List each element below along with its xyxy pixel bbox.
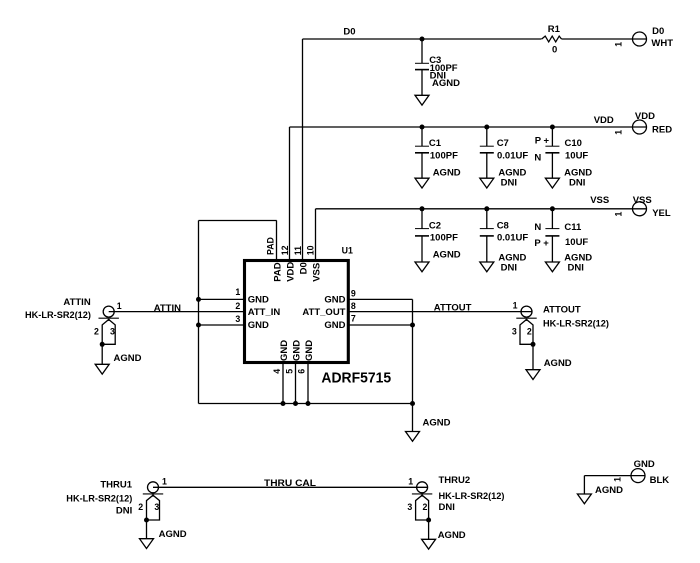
- svg-text:DNI: DNI: [116, 505, 132, 516]
- label C11: [564, 222, 582, 233]
- connector name ATTOUT: [543, 304, 581, 315]
- svg-text:AGND: AGND: [433, 167, 461, 178]
- svg-text:11: 11: [293, 246, 303, 255]
- pin number 3 of ATTIN: [110, 326, 115, 336]
- svg-text:2: 2: [527, 326, 532, 336]
- wire D0 net vertical to U1 pin 11: [302, 39, 304, 259]
- wire right GND bus vertical: [412, 299, 414, 431]
- net label ATTOUT: [434, 302, 472, 313]
- svg-text:100PF: 100PF: [430, 150, 458, 161]
- pin number 5 (rotated): [284, 369, 294, 374]
- svg-text:THRU CAL: THRU CAL: [264, 478, 316, 489]
- svg-text:0.01UF: 0.01UF: [497, 150, 528, 161]
- svg-text:VSS: VSS: [590, 195, 609, 206]
- svg-text:GND: GND: [324, 294, 345, 305]
- pin number 1 of ATTIN: [117, 301, 122, 311]
- pin name GND (pin 3): [248, 320, 269, 331]
- ground AGND below THRU1: [140, 539, 154, 549]
- wire bottom GND bus: [199, 403, 413, 405]
- ground AGND below C8: [480, 262, 494, 272]
- svg-text:AGND: AGND: [433, 249, 461, 260]
- wire THRU1 shield to ground: [146, 520, 148, 539]
- label DNI of THRU2: [439, 502, 455, 513]
- svg-text:3: 3: [407, 502, 412, 512]
- pin number 1 of J-VDD (rotated): [614, 130, 624, 135]
- svg-text:C10: C10: [565, 138, 582, 149]
- value 10UF of C10: [565, 150, 588, 161]
- svg-text:AGND: AGND: [159, 529, 187, 540]
- polarity mark P+ of C11: [534, 238, 549, 249]
- svg-text:RED: RED: [652, 124, 672, 135]
- svg-text:DNI: DNI: [569, 177, 585, 188]
- junction at ATTIN shield: [100, 342, 105, 347]
- connector ATTOUT circle (pin 1): [521, 306, 532, 317]
- connector part HK-LR-SR2(12) of ATTOUT: [543, 318, 609, 329]
- label C10: [565, 138, 582, 149]
- capacitor C3: [415, 39, 429, 95]
- svg-text:AGND: AGND: [438, 530, 466, 541]
- junction left bus at U1 pin 1: [196, 297, 201, 302]
- value 10UF of C11: [565, 237, 588, 248]
- polarity mark N of C10: [534, 152, 541, 163]
- polarity mark N of C11: [534, 222, 541, 233]
- junction VDD at C10: [550, 125, 555, 130]
- wire U1 pin 7 stub: [349, 324, 413, 326]
- label AGND at C11: [564, 253, 592, 264]
- pin number 1: [235, 287, 240, 297]
- svg-text:ATTOUT: ATTOUT: [543, 304, 581, 315]
- ground AGND below C2: [415, 262, 429, 272]
- svg-text:D0: D0: [343, 27, 355, 38]
- svg-text:1: 1: [613, 477, 623, 482]
- ground AGND below C7: [480, 178, 494, 188]
- pin name D0 (rotated): [298, 262, 309, 274]
- connector name D0: [652, 26, 664, 37]
- connector THRU2 shield: [412, 494, 432, 520]
- junction VDD at C7: [484, 125, 489, 130]
- junction at THRU2 shield: [426, 518, 431, 523]
- pin number 6 (rotated): [297, 369, 307, 374]
- pin name GND (pin 9): [324, 294, 345, 305]
- svg-text:YEL: YEL: [652, 208, 671, 219]
- net label VSS: [590, 195, 609, 206]
- label DNI of C8: [501, 262, 517, 273]
- net label D0: [343, 27, 355, 38]
- pin number 1 of J-D0 (rotated): [614, 42, 624, 47]
- connector name THRU1: [100, 479, 132, 490]
- pin number 1 of J-GND (rotated): [613, 477, 623, 482]
- svg-text:10UF: 10UF: [565, 237, 588, 248]
- svg-text:AGND: AGND: [544, 358, 572, 369]
- connector J-VDD pin 1 circle: [633, 120, 647, 134]
- wire U1 pin 4 stub: [282, 364, 284, 404]
- label AGND at ATTIN: [114, 353, 142, 364]
- junction VSS at C8: [484, 206, 489, 211]
- label AGND at ATTOUT: [544, 358, 572, 369]
- pin number 7: [351, 314, 356, 324]
- pin number 3 of ATTOUT: [512, 326, 517, 336]
- svg-text:VSS: VSS: [311, 263, 322, 282]
- svg-text:2: 2: [235, 301, 240, 311]
- value 100PF of C1: [430, 150, 458, 161]
- label AGND at C10: [564, 167, 592, 178]
- svg-text:THRU1: THRU1: [100, 479, 132, 490]
- wire THRU_CAL net: [153, 486, 428, 488]
- wire VDD net vertical from U1 pin 12: [289, 127, 291, 259]
- wire U1 pin 6 stub: [307, 364, 309, 404]
- junction VSS at C11: [550, 206, 555, 211]
- pin number 2 of THRU1: [138, 502, 143, 512]
- svg-text:D0: D0: [298, 262, 309, 274]
- pin name GND (pin 4, rotated): [279, 340, 290, 361]
- svg-text:ADRF5715: ADRF5715: [321, 369, 391, 386]
- label DNI of C10: [569, 177, 585, 188]
- wire U1 pin 3 stub: [199, 324, 245, 326]
- connector J-VSS pin 1 circle: [633, 202, 647, 216]
- pin number 9: [351, 288, 356, 298]
- junction left bus at U1 pin 3: [196, 323, 201, 328]
- ground AGND below C1: [415, 178, 429, 188]
- svg-text:ATTOUT: ATTOUT: [434, 302, 472, 313]
- value 0 of R1: [552, 44, 557, 55]
- wire U1 pin 1 stub: [199, 298, 245, 300]
- svg-text:ATTIN: ATTIN: [154, 303, 181, 314]
- label DNI of C11: [568, 262, 584, 273]
- capacitor C7: [480, 127, 494, 178]
- svg-text:3: 3: [512, 326, 517, 336]
- pin number 10 (rotated): [306, 245, 316, 255]
- label AGND at right bus: [423, 417, 451, 428]
- net label ATTIN: [154, 303, 181, 314]
- svg-text:HK-LR-SR2(12): HK-LR-SR2(12): [25, 310, 91, 321]
- pin name GND (pin 1): [248, 294, 269, 305]
- pin number 3 of THRU2: [407, 502, 412, 512]
- wire U1 pin 9 stub: [349, 298, 413, 300]
- svg-text:BLK: BLK: [650, 475, 670, 486]
- label AGND at C1: [433, 167, 461, 178]
- ground AGND below C10: [545, 178, 559, 188]
- svg-text:AGND: AGND: [595, 485, 623, 496]
- connector THRU1 circle (pin 1): [148, 482, 159, 493]
- ground AGND below C11: [545, 262, 559, 272]
- svg-text:THRU2: THRU2: [439, 475, 471, 486]
- connector color WHT: [651, 38, 673, 49]
- net label THRU_CAL: [264, 478, 316, 489]
- svg-text:DNI: DNI: [501, 177, 517, 188]
- label DNI of C7: [501, 177, 517, 188]
- svg-text:VDD: VDD: [594, 115, 614, 126]
- svg-text:0: 0: [552, 44, 557, 55]
- pin number 1 of THRU1: [162, 476, 167, 486]
- svg-text:C1: C1: [429, 138, 442, 149]
- svg-text:C8: C8: [497, 220, 509, 231]
- value 0.01UF of C8: [497, 232, 528, 243]
- svg-text:ATT_IN: ATT_IN: [248, 307, 281, 318]
- ground AGND below ATTIN: [95, 364, 109, 374]
- ground AGND below THRU2: [422, 539, 436, 549]
- pin number 11 (rotated): [293, 246, 303, 255]
- svg-text:N: N: [534, 222, 541, 233]
- junction bottom bus at pin 4: [281, 401, 286, 406]
- wire ATTIN net: [109, 311, 244, 313]
- svg-text:0.01UF: 0.01UF: [497, 232, 528, 243]
- svg-text:1: 1: [513, 301, 518, 311]
- junction VSS at C2: [420, 206, 425, 211]
- capacitor C11 (polarized): [545, 209, 559, 262]
- svg-text:VDD: VDD: [635, 111, 655, 122]
- svg-text:2: 2: [422, 502, 427, 512]
- label R1: [548, 24, 561, 35]
- connector name VSS: [633, 195, 652, 206]
- svg-text:HK-LR-SR2(12): HK-LR-SR2(12): [543, 318, 609, 329]
- pin number 2 of ATTIN: [94, 326, 99, 336]
- svg-text:ATT_OUT: ATT_OUT: [302, 307, 345, 318]
- pin name PAD (rotated): [272, 262, 283, 281]
- wire VSS net vertical from U1 pin 10: [315, 209, 317, 259]
- ground AGND below ATTOUT: [526, 370, 540, 380]
- label AGND at C2: [433, 249, 461, 260]
- svg-text:1: 1: [614, 130, 624, 135]
- svg-text:DNI: DNI: [568, 262, 584, 273]
- svg-text:GND: GND: [248, 320, 269, 331]
- pin number 1 of THRU2: [408, 476, 413, 486]
- wire THRU2 shield to ground: [428, 520, 430, 539]
- svg-text:1: 1: [117, 301, 122, 311]
- svg-text:DNI: DNI: [501, 262, 517, 273]
- polarity mark P+ of C10: [535, 135, 550, 146]
- svg-text:AGND: AGND: [432, 78, 460, 89]
- svg-text:C11: C11: [564, 222, 582, 233]
- svg-text:ATTIN: ATTIN: [63, 297, 90, 308]
- junction right bus at pin 7: [410, 323, 415, 328]
- pin number 8: [351, 301, 356, 311]
- svg-text:N: N: [534, 152, 541, 163]
- junction at ATTOUT shield: [531, 342, 536, 347]
- svg-text:100PF: 100PF: [430, 232, 458, 243]
- svg-text:12: 12: [280, 245, 290, 255]
- label AGND at J-GND: [595, 485, 623, 496]
- svg-text:GND: GND: [279, 340, 290, 361]
- svg-text:9: 9: [351, 288, 356, 298]
- pin number 1 of ATTOUT: [513, 301, 518, 311]
- pin name ATT_IN (pin 2): [248, 307, 281, 318]
- net label VDD: [594, 115, 614, 126]
- capacitor C1: [415, 127, 429, 178]
- value 100PF of C3: [430, 63, 458, 74]
- svg-text:D0: D0: [652, 26, 664, 37]
- pin label PAD (rotated, outside): [265, 237, 275, 255]
- capacitor C10 (polarized): [545, 127, 559, 178]
- junction at THRU1 shield: [144, 518, 149, 523]
- svg-text:8: 8: [351, 301, 356, 311]
- ground AGND below right bus: [406, 432, 420, 442]
- resistor R1: [542, 36, 562, 42]
- connector name ATTIN: [63, 297, 90, 308]
- label C7: [497, 138, 509, 149]
- svg-text:1: 1: [614, 42, 624, 47]
- wire GND net to connector J-GND: [584, 475, 645, 477]
- capacitor C8: [480, 209, 494, 262]
- value 100PF of C2: [430, 232, 458, 243]
- wire ATTOUT net: [349, 311, 533, 313]
- svg-text:6: 6: [297, 369, 307, 374]
- svg-text:3: 3: [235, 314, 240, 324]
- svg-text:PAD: PAD: [272, 262, 283, 281]
- svg-text:2: 2: [94, 326, 99, 336]
- svg-text:C2: C2: [429, 220, 441, 231]
- wire U1 pin 5 stub: [295, 364, 297, 404]
- label DNI of THRU1: [116, 505, 132, 516]
- svg-text:3: 3: [154, 502, 159, 512]
- wire PAD net from U1 pad pin: [199, 221, 277, 260]
- svg-text:VSS: VSS: [633, 195, 652, 206]
- connector part HK-LR-SR2(12) of ATTIN: [25, 310, 91, 321]
- connector THRU1 shield: [143, 494, 163, 520]
- svg-text:1: 1: [408, 476, 413, 486]
- svg-text:P +: P +: [535, 135, 550, 146]
- pin number 1 of J-VSS (rotated): [614, 212, 624, 217]
- pin number 2: [235, 301, 240, 311]
- svg-text:WHT: WHT: [651, 38, 673, 49]
- connector color BLK: [650, 475, 670, 486]
- label AGND at THRU1: [159, 529, 187, 540]
- refdes U1: [342, 245, 353, 255]
- connector J-GND pin 1 circle: [631, 469, 645, 483]
- pin number 2 of THRU2: [422, 502, 427, 512]
- svg-text:DNI: DNI: [439, 502, 455, 513]
- svg-text:3: 3: [110, 326, 115, 336]
- wire D0 net horizontal: [303, 38, 542, 40]
- label DNI of C3: [430, 70, 446, 81]
- junction VDD at C1: [420, 125, 425, 130]
- wire ATTOUT shield to ground: [532, 344, 534, 369]
- svg-text:5: 5: [284, 369, 294, 374]
- pin number 12 (rotated): [280, 245, 290, 255]
- pin number 4 (rotated): [272, 369, 282, 374]
- pin name VSS (rotated): [311, 263, 322, 282]
- junction bottom bus at pin 6: [306, 401, 311, 406]
- svg-text:GND: GND: [634, 459, 655, 470]
- wire left GND bus vertical: [198, 221, 200, 404]
- svg-text:AGND: AGND: [114, 353, 142, 364]
- label C2: [429, 220, 441, 231]
- svg-text:7: 7: [351, 314, 356, 324]
- wire VSS net horizontal: [316, 208, 647, 210]
- pin number 3 of THRU1: [154, 502, 159, 512]
- junction on D0 net at C3: [420, 37, 425, 42]
- connector color YEL: [652, 208, 671, 219]
- connector name THRU2: [439, 475, 471, 486]
- connector J-D0 pin 1 circle: [633, 32, 647, 46]
- pin number 3: [235, 314, 240, 324]
- svg-text:10: 10: [306, 245, 316, 255]
- svg-text:1: 1: [614, 212, 624, 217]
- label AGND at THRU2: [438, 530, 466, 541]
- part name ADRF5715: [321, 369, 391, 386]
- svg-text:GND: GND: [304, 340, 315, 361]
- pin name ATT_OUT (pin 8): [302, 307, 345, 318]
- svg-text:C7: C7: [497, 138, 509, 149]
- capacitor C2: [415, 209, 429, 262]
- wire D0 net to connector J-D0: [562, 38, 647, 40]
- svg-text:PAD: PAD: [265, 237, 275, 255]
- svg-text:2: 2: [138, 502, 143, 512]
- svg-text:GND: GND: [248, 294, 269, 305]
- connector ATTOUT shield: [516, 318, 536, 344]
- svg-text:GND: GND: [324, 320, 345, 331]
- connector name GND: [634, 459, 655, 470]
- svg-text:R1: R1: [548, 24, 561, 35]
- connector part HK-LR-SR2(12) of THRU2: [439, 491, 505, 502]
- svg-text:P +: P +: [534, 238, 549, 249]
- svg-text:AGND: AGND: [423, 417, 451, 428]
- label C8: [497, 220, 509, 231]
- junction bottom bus at pin 5: [293, 401, 298, 406]
- svg-text:10UF: 10UF: [565, 150, 588, 161]
- svg-text:4: 4: [272, 369, 282, 374]
- connector name VDD: [635, 111, 655, 122]
- wire GND net vertical to ground: [583, 476, 585, 494]
- svg-text:U1: U1: [342, 245, 353, 255]
- connector THRU2 circle (pin 1): [417, 482, 428, 493]
- value 0.01UF of C7: [497, 150, 528, 161]
- ground AGND below C3: [415, 95, 429, 105]
- connector color RED: [652, 124, 672, 135]
- pin name GND (pin 5, rotated): [291, 340, 302, 361]
- pin number 2 of ATTOUT: [527, 326, 532, 336]
- op-amp U1 body (ADRF5715): [245, 261, 349, 363]
- pin name GND (pin 7): [324, 320, 345, 331]
- svg-text:HK-LR-SR2(12): HK-LR-SR2(12): [66, 494, 132, 505]
- label C1: [429, 138, 442, 149]
- svg-text:1: 1: [162, 476, 167, 486]
- svg-text:VDD: VDD: [285, 262, 296, 282]
- wire VDD net horizontal: [290, 126, 647, 128]
- label C3: [429, 55, 441, 66]
- svg-text:HK-LR-SR2(12): HK-LR-SR2(12): [439, 491, 505, 502]
- label AGND at C7: [498, 167, 526, 178]
- junction right bus at bottom bus: [410, 401, 415, 406]
- wire ATTIN shield to ground: [101, 344, 103, 364]
- pin name VDD (rotated): [285, 262, 296, 282]
- pin name GND (pin 6, rotated): [304, 340, 315, 361]
- svg-text:GND: GND: [291, 340, 302, 361]
- ground AGND below J-GND: [577, 494, 591, 504]
- connector ATTIN shield: [99, 318, 119, 344]
- label AGND at C3: [432, 78, 460, 89]
- svg-text:1: 1: [235, 287, 240, 297]
- label AGND at C8: [498, 253, 526, 264]
- connector part HK-LR-SR2(12) of THRU1: [66, 494, 132, 505]
- connector ATTIN circle (pin 1): [103, 306, 114, 317]
